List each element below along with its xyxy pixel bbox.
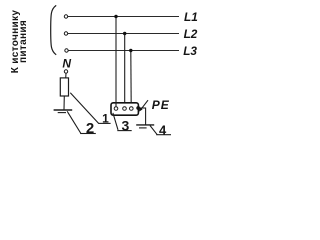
brace (supply-side bracket) — [51, 5, 57, 54]
box terminal circle 2 — [123, 107, 127, 111]
leader line 4 — [150, 126, 157, 135]
wire PE vertical — [145, 108, 147, 125]
junction dot on L1 — [114, 15, 117, 18]
leader line 2 — [67, 111, 81, 133]
svg-text:1: 1 — [102, 112, 109, 126]
wire drop from L1 — [115, 17, 117, 107]
wire fuse to earth — [63, 96, 65, 110]
svg-text:N: N — [62, 57, 71, 71]
junction dot on L3 — [129, 49, 132, 52]
svg-text:3: 3 — [122, 117, 130, 133]
svg-text:PE: PE — [152, 98, 170, 112]
leader line 1 — [70, 93, 98, 124]
terminal box 3 — [111, 103, 138, 115]
svg-text:2: 2 — [86, 120, 94, 137]
wire L1 into box — [115, 102, 117, 106]
svg-text:L3: L3 — [183, 44, 197, 58]
svg-text:L2: L2 — [184, 27, 198, 41]
wire drop from L2 — [124, 34, 126, 107]
terminal circle N — [64, 70, 67, 73]
wire L3 — [68, 50, 179, 52]
svg-text:питания: питания — [18, 20, 29, 63]
PE terminal dot — [136, 106, 140, 110]
box terminal circle 3 — [130, 107, 134, 111]
ground 2 bar short — [58, 112, 66, 114]
PE arrow — [140, 100, 148, 110]
label: К источнику питания (to power source), rotated — [10, 10, 29, 74]
ground 4 bar short — [139, 127, 147, 129]
box terminal circle 1 — [114, 107, 118, 111]
junction dot on L2 — [123, 32, 126, 35]
ground 4 (PE earth) bar long — [136, 124, 154, 126]
wire drop from L3 — [130, 51, 132, 107]
terminal circle L1 — [64, 15, 67, 18]
terminal circle L2 — [64, 32, 67, 35]
terminal circle L3 — [65, 49, 68, 52]
svg-text:4: 4 — [159, 122, 167, 137]
wire L1 — [68, 16, 179, 18]
wire L2 — [68, 33, 179, 35]
svg-text:L1: L1 — [184, 10, 198, 24]
wire N to fuse — [65, 73, 67, 78]
fuse 1 (neutral link) — [60, 78, 68, 96]
leader line 3 — [113, 113, 118, 130]
ground 2 (system earth) bar long — [54, 109, 73, 111]
wire PE horizontal — [139, 107, 146, 109]
